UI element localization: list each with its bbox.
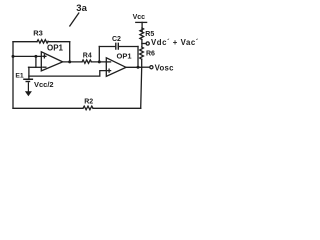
svg-text:3a: 3a: [76, 3, 87, 14]
resistor R4: [82, 60, 91, 63]
svg-text:OP1: OP1: [47, 44, 64, 53]
wire C2 left: [99, 46, 115, 48]
resistor R6: [140, 47, 144, 59]
wire bottom left: [13, 107, 83, 109]
wire OP1 noninverting input: [13, 55, 42, 57]
wire Vcc/2 bias to OP2: [29, 71, 106, 77]
wire C2 left leg: [98, 47, 100, 62]
junction node C2-output: [137, 66, 140, 69]
svg-text:R2: R2: [84, 98, 93, 105]
op-amp OP1 minus sign: [43, 66, 46, 68]
junction node R3-output: [68, 60, 71, 63]
op-amp OP1: [41, 52, 62, 71]
battery E1 top plate: [23, 79, 33, 81]
svg-text:Vosc: Vosc: [155, 63, 174, 72]
wire Vosc tap: [142, 66, 150, 68]
svg-text:R5: R5: [145, 31, 154, 38]
wire R3 leg: [69, 42, 71, 62]
junction node R4-C2: [98, 60, 101, 63]
resistor R5: [140, 28, 144, 40]
op-amp OP2: [106, 58, 126, 77]
wire mid right rail: [141, 40, 143, 48]
ground arrow: [25, 91, 32, 96]
ground lead: [28, 82, 29, 92]
Vcc supply bar: [136, 21, 147, 23]
op-amp OP1 plus sign: [43, 55, 46, 58]
terminal Vosc: [150, 66, 153, 69]
wire OP2 output: [126, 66, 142, 68]
wire R3 top: [13, 41, 37, 43]
terminal Vdc+Vac: [146, 42, 149, 45]
svg-text:E1: E1: [15, 72, 24, 79]
resistor R3: [37, 40, 48, 43]
svg-text:Vcc: Vcc: [133, 14, 146, 21]
wire input crossover: [35, 56, 37, 67]
junction node rail-input: [12, 55, 15, 58]
svg-text:Vcc/2: Vcc/2: [34, 80, 54, 89]
wire C2 right: [118, 46, 138, 48]
svg-text:C2: C2: [112, 36, 121, 43]
wire R3 right: [48, 41, 70, 43]
wire Vcc drop: [141, 22, 143, 31]
resistor R2: [83, 106, 93, 110]
svg-text:Vdc´ + Vac´: Vdc´ + Vac´: [151, 38, 199, 47]
op-amp OP2 plus sign: [108, 69, 111, 72]
svg-text:R3: R3: [33, 29, 43, 38]
op-amp OP2 minus sign: [108, 61, 111, 63]
battery E1 bottom plate: [26, 81, 31, 82]
wire R4 to OP2: [91, 61, 106, 63]
capacitor C2: [116, 43, 119, 49]
wire bottom right: [93, 107, 141, 109]
svg-text:R6: R6: [146, 51, 155, 58]
svg-text:OP1: OP1: [117, 52, 132, 61]
wire OP1 output: [63, 61, 82, 63]
junction node crossover: [34, 55, 37, 58]
svg-text:R4: R4: [83, 53, 92, 60]
leader line 3a: [70, 13, 79, 26]
wire left rail: [12, 42, 14, 109]
wire E1 drop: [28, 67, 30, 78]
wire C2 right leg: [137, 47, 139, 68]
wire right rail lower: [141, 59, 142, 108]
wire Vdc tap: [142, 43, 146, 45]
wire OP1 inverting input: [29, 66, 42, 68]
